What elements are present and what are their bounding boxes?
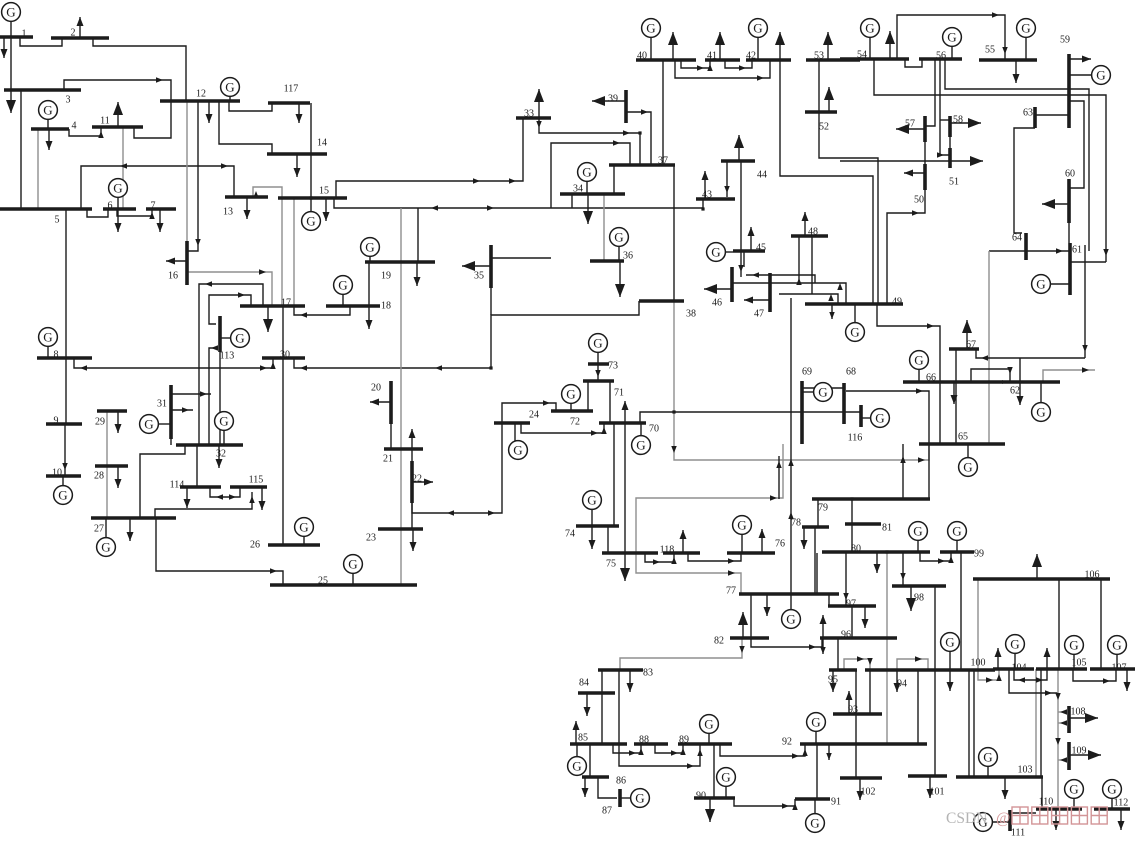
bus 56 — [919, 51, 962, 62]
generator G at bus 80 — [909, 522, 928, 552]
svg-text:115: 115 — [249, 475, 264, 486]
wire 5-8 — [65, 209, 67, 358]
wire 49-66-65 — [877, 304, 940, 444]
generator G at bus 74 — [583, 491, 602, 526]
wire 103-105a — [1035, 669, 1037, 777]
svg-text:11: 11 — [100, 116, 110, 127]
svg-text:G: G — [299, 520, 308, 535]
wire 22-24 — [412, 423, 502, 516]
bus 37 — [609, 156, 675, 167]
svg-text:G: G — [947, 30, 956, 45]
wire 100-103b — [973, 670, 975, 777]
wire 95-96 — [837, 638, 839, 670]
load arrow bus 102 — [857, 778, 864, 800]
wire 5-6 — [87, 209, 108, 217]
bus 115 — [230, 475, 267, 488]
svg-text:92: 92 — [782, 737, 792, 748]
wire 1-2 — [20, 37, 62, 46]
generator G at bus 12 — [221, 78, 240, 101]
bus 79 — [812, 499, 930, 514]
wire 113-32 — [219, 352, 221, 445]
svg-text:G: G — [1036, 405, 1045, 420]
svg-text:107: 107 — [1112, 663, 1127, 674]
load arrow bus 101 — [927, 776, 934, 798]
wire 68-77 — [776, 456, 782, 499]
bus 74 — [565, 526, 619, 540]
bus 106 — [973, 570, 1110, 581]
wire 75-118 — [645, 553, 677, 565]
load arrow bus 41 — [715, 32, 725, 60]
load arrow bus 39 — [592, 96, 626, 106]
wire 2-12 — [93, 38, 186, 101]
wire 12-14 — [219, 101, 272, 154]
wire 58 stub — [940, 119, 950, 121]
wire 80-96-92 — [886, 552, 888, 744]
bus 71 — [583, 381, 624, 399]
wire 49-50 — [887, 190, 925, 304]
svg-text:G: G — [636, 438, 645, 453]
svg-text:47: 47 — [754, 309, 764, 320]
bus 19 — [365, 262, 435, 282]
load arrow bus 2 — [77, 17, 84, 38]
wire 49-51 — [840, 160, 950, 162]
wire 5-13 — [81, 163, 234, 209]
bus 24 — [494, 410, 539, 424]
svg-text:91: 91 — [831, 797, 841, 808]
svg-text:6: 6 — [108, 201, 113, 212]
svg-text:82: 82 — [714, 636, 724, 647]
wire 15-17 — [293, 198, 295, 306]
bus 44 — [721, 161, 767, 181]
generator G at bus 54 — [861, 19, 880, 59]
load arrow bus 42 — [775, 32, 785, 60]
svg-text:G: G — [225, 80, 234, 95]
wire 65-79 — [900, 444, 906, 499]
svg-text:G: G — [43, 103, 52, 118]
wire 54-59 — [874, 59, 1109, 262]
wire 31-32 — [170, 439, 172, 445]
load arrow bus 104 — [995, 648, 1002, 669]
bus 13 — [223, 197, 268, 218]
wire 109 stub — [1058, 757, 1067, 763]
svg-text:41: 41 — [707, 51, 717, 62]
generator G at bus 91 — [806, 799, 825, 832]
generator G at bus 70 — [632, 423, 651, 454]
wire 71-72 — [587, 381, 589, 411]
load arrow bus 70 — [622, 401, 629, 423]
wire 63-64 — [1014, 128, 1035, 233]
generator G at bus 31 — [140, 415, 171, 434]
svg-text:44: 44 — [757, 170, 767, 181]
bus 3 — [4, 90, 81, 106]
load arrow bus 20 — [370, 399, 391, 406]
bus 57 — [905, 116, 925, 142]
wire 4-11 — [69, 127, 104, 138]
load arrow bus 59 — [1069, 56, 1091, 63]
generator G at bus 66 — [910, 351, 929, 382]
generator G at bus 99 — [948, 522, 967, 552]
svg-text:58: 58 — [953, 115, 963, 126]
wire 60-61 — [1068, 223, 1070, 243]
svg-text:39: 39 — [608, 94, 618, 105]
load arrow bus 32 — [216, 445, 223, 468]
bus 46 — [712, 267, 732, 309]
bus 15 — [278, 186, 347, 199]
bus 82 — [714, 636, 769, 647]
bus 41 — [705, 51, 740, 62]
bus 30 — [262, 350, 305, 361]
wire 8-9 — [65, 358, 67, 424]
load arrow bus 29 — [115, 411, 122, 433]
svg-text:G: G — [786, 612, 795, 627]
wire 21-22 — [411, 449, 413, 461]
svg-text:G: G — [635, 791, 644, 806]
wire 89-92 — [720, 744, 808, 759]
wire 34-36 — [603, 194, 605, 261]
svg-text:16: 16 — [168, 271, 178, 282]
svg-text:G: G — [58, 488, 67, 503]
bus 110 — [1036, 797, 1082, 810]
bus 17 — [240, 298, 305, 309]
svg-text:86: 86 — [616, 776, 626, 787]
generator G at bus 73 — [589, 334, 608, 364]
svg-text:51: 51 — [949, 177, 959, 188]
bus 2 — [51, 28, 109, 39]
svg-text:15: 15 — [319, 186, 329, 197]
load arrow bus 76 — [759, 529, 766, 553]
svg-text:33: 33 — [524, 109, 534, 120]
load arrow bus 77 — [764, 594, 771, 616]
wire 106-100 — [978, 579, 1002, 683]
wire 46-49a — [746, 272, 815, 283]
bus 10 — [46, 468, 81, 479]
bus 54 — [840, 50, 909, 61]
generator G at bus 40 — [642, 19, 661, 60]
wire 12-16 — [187, 101, 201, 251]
svg-text:G: G — [646, 21, 655, 36]
svg-text:G: G — [945, 635, 954, 650]
wire 54-56 — [905, 59, 922, 67]
svg-text:37: 37 — [658, 156, 668, 167]
generator G at bus 1 — [2, 3, 21, 37]
svg-text:73: 73 — [608, 361, 618, 372]
svg-text:G: G — [704, 717, 713, 732]
svg-text:G: G — [43, 330, 52, 345]
generator G at bus 111 — [974, 813, 1010, 832]
load arrow bus 98 — [906, 586, 916, 611]
bus 93 — [833, 705, 882, 716]
svg-text:80: 80 — [851, 544, 861, 555]
wire 104-105 — [1014, 669, 1047, 683]
bus 89 — [678, 735, 732, 746]
wire 82-96 — [751, 638, 822, 650]
wire 18-19 — [368, 262, 370, 306]
load arrow bus 96 — [820, 615, 827, 638]
wire 64-61 — [989, 248, 1070, 254]
generator G at bus 42 — [749, 19, 768, 60]
wire 53-49 — [819, 60, 878, 304]
svg-text:G: G — [593, 336, 602, 351]
wire 41-42 — [725, 60, 752, 71]
bus 96 — [820, 630, 897, 641]
wire 29-28-27 — [106, 411, 108, 518]
svg-text:97: 97 — [846, 599, 856, 610]
bus 33 — [516, 109, 551, 120]
wire 70-116 — [640, 412, 861, 423]
svg-text:29: 29 — [95, 417, 105, 428]
load arrow bus 115 — [259, 487, 266, 510]
svg-text:85: 85 — [578, 733, 588, 744]
svg-text:84: 84 — [579, 678, 589, 689]
wire 83-84-85 — [601, 670, 603, 744]
wire 27-115 — [155, 492, 255, 518]
svg-text:103: 103 — [1018, 765, 1033, 776]
load arrow bus 19 — [414, 262, 421, 286]
bus 105 — [1036, 658, 1087, 670]
svg-text:G: G — [348, 557, 357, 572]
svg-text:59: 59 — [1060, 35, 1070, 46]
svg-text:43: 43 — [702, 190, 712, 201]
load arrow bus 62 — [1017, 382, 1024, 405]
generator G at bus 92 — [807, 713, 826, 744]
load arrow bus 94 — [894, 670, 901, 692]
wire 33-37 — [536, 118, 640, 165]
wire 108 stub b — [1058, 720, 1067, 726]
wire 93-94 — [869, 670, 871, 714]
generator G at bus 105 — [1065, 636, 1084, 669]
generator G at bus 61 — [1032, 275, 1070, 294]
generator G at bus 18 — [334, 276, 353, 306]
svg-text:14: 14 — [317, 138, 327, 149]
bus 117 — [268, 84, 310, 104]
svg-text:28: 28 — [94, 471, 104, 482]
load arrow bus 110 — [1053, 809, 1060, 830]
wire 106-107 — [1100, 579, 1102, 669]
svg-text:G: G — [850, 325, 859, 340]
load arrow bus 92 — [826, 744, 832, 760]
wire 12-16b — [186, 101, 188, 241]
wire 59-60 — [1069, 101, 1084, 188]
wire 11-12 — [134, 101, 171, 138]
load arrow bus 1042 — [1044, 648, 1051, 669]
svg-text:G: G — [818, 385, 827, 400]
svg-text:81: 81 — [882, 523, 892, 534]
svg-text:64: 64 — [1012, 233, 1022, 244]
svg-text:18: 18 — [381, 301, 391, 312]
load arrow bus 55 — [1013, 60, 1020, 83]
bus 81 — [845, 523, 892, 534]
wire 17-32 — [199, 281, 263, 445]
svg-text:G: G — [582, 165, 591, 180]
svg-text:G: G — [711, 245, 720, 260]
load arrow bus 66 — [951, 382, 958, 404]
svg-text:9: 9 — [54, 416, 59, 427]
load arrow bus 43 — [702, 171, 709, 199]
bus 48 — [791, 227, 828, 238]
load arrow bus 4 — [46, 129, 53, 150]
wire 56-59 — [945, 59, 1089, 251]
svg-text:27: 27 — [94, 524, 104, 535]
wire 118-76 — [688, 553, 741, 564]
svg-text:30: 30 — [280, 350, 290, 361]
bus 14 — [267, 138, 327, 155]
svg-text:G: G — [913, 524, 922, 539]
wire 82-83 — [620, 638, 745, 670]
wire 58-51 — [949, 137, 951, 148]
wire 40-42 — [675, 60, 770, 81]
wire 113-27 — [209, 345, 218, 445]
svg-text:75: 75 — [606, 559, 616, 570]
bus 100 — [919, 658, 995, 671]
generator G at bus 49 — [846, 304, 865, 341]
svg-text:25: 25 — [318, 576, 328, 587]
bus 104 — [993, 663, 1034, 674]
bus 84 — [578, 678, 615, 694]
bus 73 — [588, 361, 618, 372]
load arrow bus 108 — [1069, 713, 1098, 723]
wire 9-10 — [62, 424, 68, 476]
svg-text:5: 5 — [55, 215, 60, 226]
wire 105-110 — [1055, 669, 1061, 809]
svg-text:56: 56 — [936, 51, 946, 62]
svg-text:108: 108 — [1071, 707, 1086, 718]
wire 117-14 — [310, 103, 312, 154]
load arrow bus 13 — [244, 197, 251, 219]
svg-text:8: 8 — [54, 350, 59, 361]
wire 68-69 — [802, 387, 844, 389]
bus 35 — [474, 245, 491, 288]
svg-text:7: 7 — [151, 201, 156, 212]
svg-text:111: 111 — [1011, 828, 1025, 839]
wire 92-94 — [917, 670, 919, 744]
generator G at bus 116 — [861, 409, 889, 428]
load arrow bus 54 — [885, 31, 895, 59]
svg-text:45: 45 — [756, 243, 766, 254]
wire 17-26 — [282, 306, 284, 545]
load arrow bus 106 — [1032, 554, 1042, 579]
svg-text:G: G — [1112, 638, 1121, 653]
generator G at bus 32 — [215, 412, 234, 445]
generator G at bus 89 — [700, 715, 719, 744]
generator G at bus 113 — [220, 329, 249, 348]
svg-text:113: 113 — [220, 351, 235, 362]
load arrow bus 50 — [904, 170, 925, 177]
bus 25 — [270, 576, 417, 587]
bus 60 — [1065, 169, 1075, 224]
bus 39 — [608, 90, 626, 123]
svg-text:32: 32 — [216, 449, 226, 460]
load arrow bus 82 — [738, 612, 748, 638]
bus 32 — [176, 445, 243, 460]
svg-text:3: 3 — [66, 95, 71, 106]
bus 77 — [726, 586, 839, 597]
load arrow bus 3 — [6, 90, 16, 113]
bus 109 — [1069, 742, 1087, 770]
bus 40 — [636, 51, 696, 62]
svg-text:G: G — [721, 770, 730, 785]
wire 57-50 — [924, 142, 926, 164]
svg-text:116: 116 — [848, 433, 863, 444]
load arrow bus 15 — [323, 198, 330, 221]
wire 83-85-89 — [619, 670, 703, 769]
svg-text:70: 70 — [649, 424, 659, 435]
load arrow bus 6 — [115, 209, 122, 232]
bus 86 — [582, 776, 626, 787]
wire 24-70 — [521, 423, 607, 436]
load arrow bus 49 — [829, 304, 835, 319]
generator G at bus 59 — [1069, 66, 1110, 85]
wire 37-40 — [662, 60, 664, 165]
wire 80-97 — [843, 552, 849, 606]
svg-text:38: 38 — [686, 309, 696, 320]
svg-text:CSDN: CSDN — [946, 810, 987, 827]
generator G at bus 62 — [1032, 382, 1051, 421]
generator G at bus 100 — [941, 633, 960, 670]
wire 80-99 — [920, 552, 954, 564]
load arrow bus 16 — [166, 258, 187, 265]
bus 18 — [326, 301, 391, 312]
bus 5 — [0, 209, 92, 226]
wire 46-49b — [733, 283, 846, 304]
generator G at bus 27 — [97, 518, 116, 556]
load arrow bus 95 — [830, 670, 837, 692]
bus 51 — [949, 148, 959, 188]
watermark 荔枝科研社 glyph blocks — [1012, 807, 1028, 824]
wire 61-62a — [1070, 261, 1106, 263]
wire 69-77 — [788, 298, 794, 594]
bus 101 — [908, 776, 947, 798]
svg-text:1: 1 — [22, 29, 27, 40]
bus 85 — [570, 733, 627, 745]
wire 96-97 — [851, 606, 853, 638]
bus 38 — [639, 301, 696, 320]
svg-text:61: 61 — [1072, 245, 1082, 256]
svg-text:G: G — [572, 759, 581, 774]
load arrow bus 47 — [744, 297, 770, 304]
wire 3-5 — [20, 90, 22, 209]
svg-text:110: 110 — [1039, 797, 1054, 808]
wire 114-115 — [210, 487, 240, 500]
load arrow bus 1 — [1, 37, 8, 58]
svg-text:77: 77 — [726, 586, 736, 597]
svg-text:G: G — [338, 278, 347, 293]
generator G at bus 34 — [578, 163, 597, 194]
svg-text:63: 63 — [1023, 108, 1033, 119]
bus 6 — [103, 201, 136, 212]
load arrow bus 67 — [962, 320, 972, 349]
wire 6-7 — [117, 209, 155, 219]
load arrow bus 100 — [947, 670, 954, 691]
bus 31 — [157, 385, 171, 439]
svg-text:55: 55 — [985, 45, 995, 56]
bus 50 — [914, 164, 925, 206]
svg-text:53: 53 — [814, 51, 824, 62]
bus 9 — [46, 416, 82, 427]
svg-text:G: G — [811, 715, 820, 730]
wire 80-98 — [900, 552, 906, 586]
bus 34 — [560, 184, 625, 195]
wire 34-37 — [613, 165, 615, 194]
junction dots — [638, 131, 641, 134]
svg-text:66: 66 — [926, 373, 936, 384]
svg-text:22: 22 — [412, 474, 422, 485]
svg-text:G: G — [566, 387, 575, 402]
svg-text:G: G — [587, 493, 596, 508]
svg-text:G: G — [865, 21, 874, 36]
svg-text:2: 2 — [71, 28, 76, 39]
wire 13-17 — [253, 187, 282, 306]
svg-text:20: 20 — [371, 383, 381, 394]
